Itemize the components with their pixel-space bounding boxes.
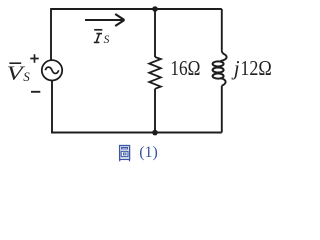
- svg-text:16Ω: 16Ω: [170, 56, 200, 80]
- svg-text:S: S: [23, 69, 30, 84]
- svg-text:S: S: [104, 34, 110, 46]
- svg-text:(1): (1): [139, 144, 158, 161]
- svg-text:12Ω: 12Ω: [240, 56, 271, 80]
